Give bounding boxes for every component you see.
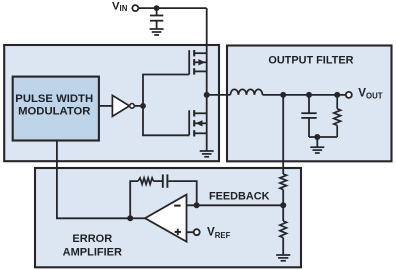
terminal VREF (open circle)	[194, 229, 200, 235]
wire VIN horizontal	[138, 7, 206, 9]
wire Q1 drain-source vertical	[206, 8, 208, 95]
wire divider to ground	[282, 238, 284, 255]
junction minus input / compensation	[194, 202, 200, 208]
junction FEEDBACK node	[280, 202, 286, 208]
svg-text:ERROR: ERROR	[72, 233, 112, 245]
wire to bottom gate	[142, 134, 189, 136]
converter block box	[4, 45, 219, 161]
junction error amp output / compensation	[127, 215, 133, 221]
wire divider middle	[282, 190, 284, 222]
wire error amp output to PWM vertical	[57, 140, 130, 218]
svg-text:OUTPUT FILTER: OUTPUT FILTER	[268, 55, 353, 67]
terminal VIN (open circle)	[132, 5, 138, 11]
wire to top gate	[142, 74, 189, 76]
wire gate drive vertical up	[142, 75, 144, 106]
junction gate drive node	[140, 103, 146, 109]
ground (divider)	[276, 255, 290, 261]
compensation resistor	[138, 178, 153, 184]
Q2 body arrow (points left)	[196, 120, 203, 126]
wire bubble to gate node	[134, 105, 143, 107]
error amplifier block box	[35, 168, 301, 267]
output filter capacitor	[301, 95, 316, 137]
wire gate drive vertical down	[142, 106, 144, 135]
junction output / feedback divider	[280, 92, 286, 98]
wire plus input to VREF	[187, 231, 194, 233]
inductor L	[230, 89, 262, 95]
svg-text:MODULATOR: MODULATOR	[18, 106, 90, 118]
junction filter ground	[314, 134, 320, 140]
wire Q2 drain-source vertical	[206, 95, 208, 151]
junction output / filter capacitor	[306, 92, 312, 98]
junction output / load resistor	[334, 92, 340, 98]
ground (output filter)	[310, 147, 324, 153]
input capacitor	[150, 8, 163, 29]
wire compensation to minus input	[168, 181, 196, 205]
svg-text:AMPLIFIER: AMPLIFIER	[63, 246, 122, 258]
transistor Q2 (low-side, arrow in)	[189, 110, 207, 136]
op-amp error amplifier	[145, 195, 187, 242]
wire VOUT node down to divider	[282, 95, 284, 174]
op-amp minus sign	[174, 205, 180, 207]
load resistor	[334, 95, 341, 137]
feedback divider resistor (top)	[280, 174, 287, 190]
junction VIN / input capacitor	[154, 5, 160, 11]
wire error amp output	[130, 217, 145, 219]
compensation capacitor	[163, 174, 168, 187]
terminal VOUT (open circle)	[346, 92, 352, 98]
wire FEEDBACK	[187, 204, 284, 206]
ground (Q2 source)	[200, 151, 214, 157]
node SW junction	[204, 92, 210, 98]
op-amp plus sign	[175, 229, 181, 235]
wire SW node to inductor	[207, 94, 231, 96]
pulse width modulator block	[13, 77, 99, 141]
wire junction to ground	[316, 137, 318, 147]
wire capacitor to resistor bottom	[309, 136, 337, 138]
svg-text:FEEDBACK: FEEDBACK	[209, 191, 270, 203]
feedback divider resistor (bottom)	[280, 221, 287, 238]
inverter output bubble	[130, 104, 135, 109]
Q1 body arrow (points right)	[198, 59, 205, 65]
ground (input capacitor)	[150, 29, 164, 35]
transistor Q1 (high-side, arrow out)	[189, 50, 207, 75]
wire inductor to VOUT terminal	[263, 94, 346, 96]
inverter (gate driver)	[112, 95, 129, 116]
wire resistor to capacitor	[153, 180, 162, 182]
svg-text:PULSE WIDTH: PULSE WIDTH	[15, 93, 93, 105]
output filter block box	[227, 46, 392, 162]
wire compensation branch up	[130, 181, 138, 218]
wire PWM output to inverter	[99, 105, 113, 107]
